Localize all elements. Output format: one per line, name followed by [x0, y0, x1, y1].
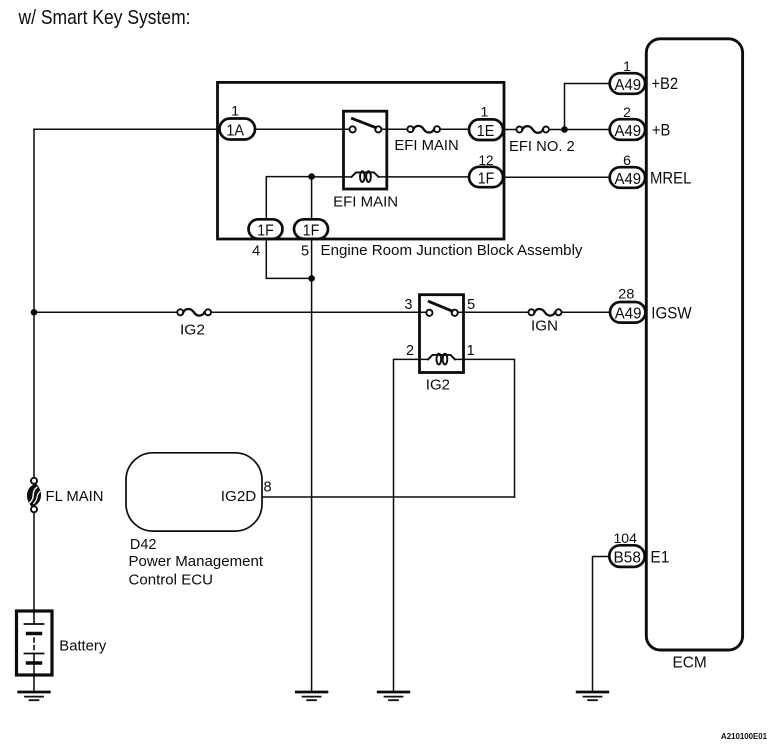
svg-text:A210100E01: A210100E01: [721, 731, 767, 741]
svg-text:12: 12: [479, 152, 494, 168]
wire: 1F pin4 down and over: [266, 239, 311, 279]
svg-text:1F: 1F: [303, 222, 320, 239]
svg-text:EFI MAIN: EFI MAIN: [333, 194, 398, 211]
wire: IG2 fuse to relay contact: [211, 311, 426, 313]
node: junction dot coil branch: [308, 173, 315, 180]
svg-text:6: 6: [623, 152, 631, 168]
connector A49 IGSW: [610, 302, 645, 323]
wire: branch up to +B2: [565, 84, 610, 130]
svg-text:MREL: MREL: [650, 169, 691, 188]
svg-text:3: 3: [404, 297, 412, 313]
wire: IG2 relay coil right down to IG2D wire: [455, 359, 515, 497]
fusible link FL MAIN: [27, 478, 40, 513]
svg-text:A49: A49: [615, 77, 642, 94]
connector A49 MREL: [610, 167, 645, 188]
wire: IGN fuse to IGSW: [562, 311, 611, 313]
svg-text:IGSW: IGSW: [651, 304, 691, 323]
svg-text:1: 1: [467, 343, 475, 359]
svg-text:FL MAIN: FL MAIN: [46, 488, 104, 505]
ground: junction block ground: [296, 692, 327, 700]
ground: E1 ground: [577, 692, 608, 700]
wire: battery to ground: [33, 663, 35, 692]
node: junction dot at IG2 branch: [31, 309, 38, 316]
fuse IG2: [177, 309, 211, 316]
wire: relay coil wire left segment: [312, 176, 352, 178]
connector 1F pin 5: [294, 219, 328, 239]
svg-text:2: 2: [623, 104, 631, 120]
svg-text:1: 1: [231, 103, 239, 119]
svg-text:Control ECU: Control ECU: [129, 572, 214, 589]
svg-text:IG2D: IG2D: [221, 488, 257, 505]
svg-text:E1: E1: [650, 548, 669, 567]
ECM box: [646, 39, 742, 650]
fuse EFI NO. 2: [516, 126, 549, 133]
connector A49 +B2: [610, 73, 645, 94]
wire: 1F pin5 down to ground: [311, 239, 313, 692]
wire: fuse to 1E: [440, 128, 469, 130]
battery: [17, 611, 53, 675]
connector B58: [609, 545, 644, 567]
svg-text:A49: A49: [615, 306, 642, 323]
svg-text:28: 28: [618, 286, 635, 302]
wire: fuse to +B with branch: [549, 129, 610, 131]
ground: IG2 coil ground: [378, 692, 409, 700]
svg-text:1: 1: [623, 58, 631, 74]
ground: battery ground: [19, 692, 50, 700]
svg-text:1A: 1A: [226, 122, 244, 139]
wire: relay to EFI MAIN fuse: [381, 128, 407, 130]
wire: IG2 relay coil left to ground: [394, 359, 429, 691]
svg-text:IG2: IG2: [426, 377, 450, 394]
svg-text:8: 8: [264, 480, 272, 496]
relay EFI MAIN: [344, 111, 387, 189]
svg-text:Power Management: Power Management: [129, 553, 264, 570]
wire: IG2D wire: [262, 496, 515, 498]
svg-text:IG2: IG2: [180, 321, 205, 338]
svg-text:Battery: Battery: [59, 638, 106, 655]
wire: relay coil wire right segment: [379, 176, 470, 178]
wire: 1E to EFI NO. 2 fuse: [503, 129, 516, 131]
svg-text:IGN: IGN: [531, 318, 558, 335]
svg-text:A49: A49: [615, 171, 642, 188]
svg-text:1F: 1F: [478, 170, 495, 187]
svg-text:Engine Room Junction Block Ass: Engine Room Junction Block Assembly: [321, 242, 583, 259]
wire: battery feed horizontal to 1A: [34, 128, 220, 130]
svg-text:D42: D42: [130, 536, 157, 553]
node: junction dot +B branch: [561, 126, 568, 133]
wire: IG2 branch horizontal left segment: [34, 311, 177, 313]
svg-text:EFI NO. 2: EFI NO. 2: [509, 138, 575, 155]
svg-text:1F: 1F: [257, 222, 274, 239]
svg-text:ECM: ECM: [673, 655, 707, 672]
svg-text:+B: +B: [652, 121, 671, 140]
svg-text:w/ Smart Key System:: w/ Smart Key System:: [18, 7, 191, 29]
wire: FL MAIN to battery: [33, 512, 35, 611]
ECU D42 box: [126, 453, 262, 531]
junction block: Engine Room Junction Block Assembly box: [218, 82, 505, 239]
wire: 1A to EFI MAIN relay contact: [255, 128, 350, 130]
svg-text:EFI MAIN: EFI MAIN: [394, 137, 458, 154]
connector 1A: [220, 119, 256, 140]
relay IG2: [420, 295, 464, 373]
svg-text:B58: B58: [614, 550, 641, 567]
svg-text:5: 5: [301, 244, 309, 260]
connector A49 +B: [610, 119, 645, 140]
svg-text:2: 2: [406, 343, 414, 359]
fuse EFI MAIN: [407, 126, 440, 133]
node: junction dot below 1F: [308, 275, 315, 282]
connector 1F pin 4: [249, 219, 283, 239]
wire: left vertical main feed: [33, 129, 35, 478]
fuse IGN: [529, 309, 562, 316]
wire: relay to IGN fuse: [458, 311, 529, 313]
svg-text:104: 104: [614, 530, 638, 546]
wire: E1 to ground: [593, 557, 610, 692]
connector 1F pin 12: [469, 167, 503, 188]
svg-text:4: 4: [252, 244, 260, 260]
connector 1E: [469, 119, 503, 140]
svg-text:A49: A49: [615, 123, 642, 140]
wire: 1F(12) to MREL: [503, 176, 610, 178]
svg-text:5: 5: [467, 297, 475, 313]
svg-text:1: 1: [481, 104, 489, 120]
svg-text:1E: 1E: [477, 123, 495, 140]
wire: down to 1F pin5: [311, 177, 313, 219]
svg-text:+B2: +B2: [651, 74, 678, 93]
wire: branch to 1F pin4: [266, 177, 311, 219]
